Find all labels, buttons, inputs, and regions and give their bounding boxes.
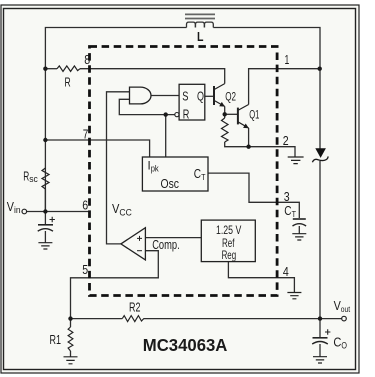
AND gate U2 [130,87,151,104]
wire comparator output to AND gate input [107,92,130,244]
Q1 emitter arrow [243,124,249,129]
ground timing cap [292,234,306,240]
ground pin 4 [287,293,301,299]
timing capacitor CT [293,219,307,226]
resistor R2 [122,316,143,322]
wire pin 5 row to comparator inverting input [71,251,159,319]
junction node R top [43,67,47,71]
diode D [315,148,326,158]
wire node to Q1 base [225,113,238,115]
wire diode cathode to Vout node [319,161,321,319]
comparator [121,228,145,260]
transistor Q1 [238,105,249,129]
junction node Q1 base [223,112,227,116]
svg-text:L: L [197,30,204,44]
wire R1 top stub [70,319,72,327]
input capacitor plus [50,217,55,222]
wire pin 7 row [45,140,149,157]
wire Vin top rail to inductor [45,28,186,212]
svg-text:2: 2 [283,134,289,148]
oscillator block Ipk Osc [142,157,208,191]
svg-text:1.25 V: 1.25 V [216,223,241,237]
wire timing cap stub [298,226,300,234]
wire AND output to latch S [151,95,179,97]
svg-text:R1: R1 [50,333,62,347]
wire pin 1 row (Q1 collector to switch node) [249,69,320,105]
svg-text:S: S [182,90,188,104]
svg-text:6: 6 [82,199,88,213]
wire pin 6 row (Vin to Vcc pin) [27,211,90,213]
svg-text:Q: Q [197,90,204,104]
wire Q2 emitter to Rsc-sense node [224,106,226,118]
svg-text:5: 5 [82,263,88,277]
svg-text:Comp.: Comp. [152,238,180,252]
junction node Vin [43,209,47,213]
IC boundary dashed box MC34063A [90,47,278,296]
comparator minus input mark [137,250,142,252]
resistor Rsc [42,168,49,189]
wire R1 to ground stub [70,351,72,357]
junction node latch R [164,112,168,116]
comparator plus input mark [137,236,142,241]
wire Co stub [319,319,321,338]
svg-text:R: R [65,76,71,90]
output capacitor Co [312,338,328,344]
svg-text:MC34063A: MC34063A [143,335,228,355]
wire pin 4 row (Ref to ground) [228,262,294,293]
junction node Vout [318,316,322,320]
wire pin 3 row (Osc CT to timing cap) [208,173,299,218]
svg-text:R: R [183,108,190,122]
latch box S R Q [179,84,205,120]
wire pin 8 row (R to Q2 collector) [45,68,57,70]
terminal Vout [342,316,347,321]
resistor R1 [68,327,73,351]
resistor Q2 emitter [222,118,229,142]
junction node R1 R2 [68,316,72,320]
wire Rsc lower segment [44,189,46,212]
ground R1 [64,357,78,364]
junction node pin 7 [43,138,47,142]
reference regulator block [201,220,255,262]
svg-text:3: 3 [284,190,290,204]
svg-text:4: 4 [283,265,289,279]
wire input cap stub [44,212,46,225]
svg-text:Q2: Q2 [225,89,236,103]
wire Q1 emitter to pin 2 row [248,128,250,147]
terminal Vin [22,209,27,214]
svg-text:8: 8 [84,53,90,67]
junction node Q1 emitter [246,145,250,149]
svg-text:7: 7 [83,128,89,142]
svg-text:R2: R2 [129,301,141,315]
wire oscillator to AND gate and latch R [119,99,175,114]
svg-text:1: 1 [285,53,290,67]
ground pin 2 [288,157,304,164]
Q2 emitter arrow [219,102,225,107]
inductor L [185,14,215,27]
wire latch R junction to oscillator [165,115,167,157]
input capacitor [38,225,53,231]
ground output cap [313,357,327,363]
latch R inverting bubble [175,113,179,117]
svg-text:Osc: Osc [161,177,180,191]
wire inductor to switch node [213,28,320,149]
wire pin 2 row (emitter to ground) [225,142,295,157]
junction node switch pin 1 [318,67,322,71]
wire latch Q to Q2 base [205,95,214,97]
svg-text:Reg: Reg [222,248,237,262]
svg-text:Q1: Q1 [249,107,259,121]
transistor Q2 [214,84,225,107]
output capacitor plus [325,329,330,334]
wire comparator + input to reference [145,237,201,239]
resistor R [57,66,80,72]
wire output feedback row (Vout to divider) [71,318,123,320]
ground input cap [38,243,52,249]
